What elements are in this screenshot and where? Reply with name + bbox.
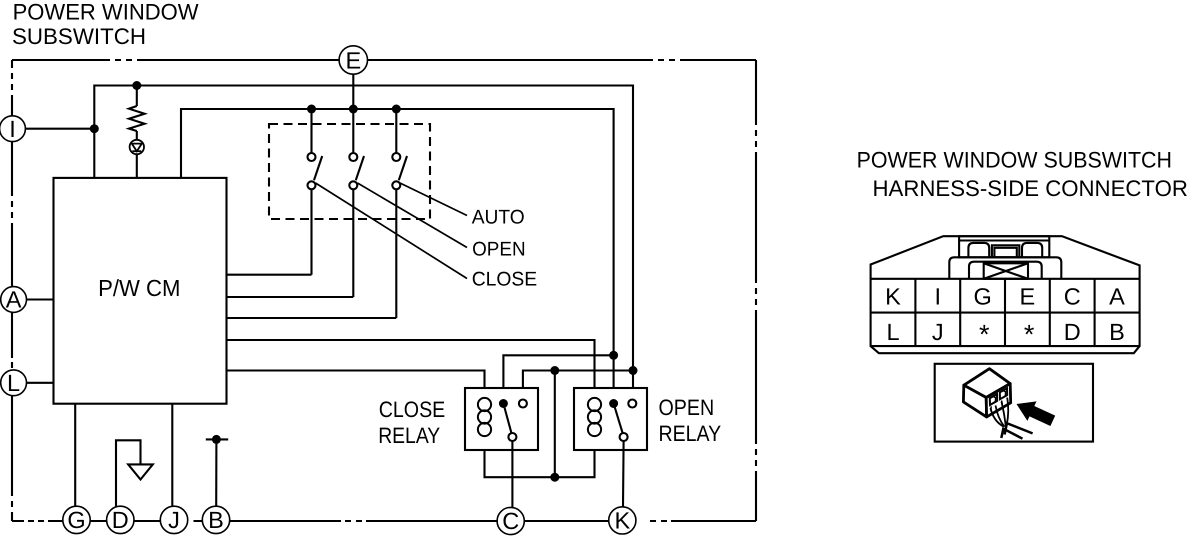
wire S3 to P/W CM (227, 317, 397, 319)
LED indicator lamp (130, 140, 144, 154)
connector top latch tier 1 (959, 236, 1049, 257)
wire line5 to CLOSE relay coil (227, 371, 485, 399)
wire S2 to P/W CM (227, 296, 354, 298)
OPEN relay arm (614, 404, 623, 434)
terminal L (1, 370, 27, 396)
svg-text:L: L (7, 370, 20, 396)
OPEN relay common contact (609, 399, 618, 408)
connector icon fork prongs (1001, 423, 1032, 439)
wire LED to box (136, 154, 138, 178)
wire line4 to OPEN relay coil (227, 340, 595, 398)
node bus dot 2 (349, 105, 358, 114)
wire E to switch bus (352, 74, 354, 109)
heading POWER WINDOW SUBSWITCH HARNESS-SIDE CONNECTOR (857, 147, 1188, 201)
border right (755, 60, 757, 521)
label CLOSE RELAY (378, 397, 445, 448)
terminal J (160, 506, 187, 533)
border top (dash-dot boundary) (12, 59, 756, 61)
svg-text:G: G (973, 284, 991, 310)
wire resistor top (136, 86, 138, 107)
node B stub dot (212, 435, 221, 444)
CLOSE relay box K1 (465, 388, 538, 450)
ground symbol (116, 440, 153, 506)
CLOSE relay arm (503, 404, 511, 434)
wire I to junction (25, 128, 94, 130)
svg-text:A: A (6, 287, 22, 313)
wire S1 to P/W CM (227, 274, 312, 276)
title POWER WINDOW SUBSWITCH (12, 0, 199, 49)
terminal B (202, 506, 229, 533)
wire coil bottom bus (485, 436, 595, 477)
resistor R (129, 106, 145, 131)
svg-text:CLOSE: CLOSE (379, 397, 446, 422)
connector pin grid (871, 279, 1140, 346)
connector outline (871, 236, 1140, 353)
svg-text:K: K (885, 284, 901, 310)
label OPEN RELAY (659, 395, 722, 446)
node bus dot 3 (392, 105, 401, 114)
B stub termination bar (206, 438, 228, 440)
svg-text:I: I (935, 284, 942, 310)
connector icon terminal arrows (991, 389, 1006, 410)
wire relay to C (511, 441, 513, 507)
node coil bottom junction (550, 473, 559, 482)
svg-text:C: C (502, 508, 519, 534)
svg-text:G: G (67, 507, 85, 533)
CLOSE relay coil (478, 398, 491, 436)
svg-text:A: A (1109, 284, 1125, 310)
switch S3 (AUTO) (392, 109, 407, 318)
svg-text:D: D (112, 507, 129, 533)
OPEN relay NO contact (628, 400, 636, 408)
wire CLOSE common feed (503, 355, 613, 403)
wire J to box (171, 404, 173, 507)
svg-text:RELAY: RELAY (378, 423, 440, 448)
OPEN relay coil (588, 398, 601, 436)
terminal K (609, 507, 636, 534)
wire net b: box pin up, right, down to OPEN relay NO contact (94, 86, 633, 400)
border left (11, 60, 13, 521)
wire relay to K (622, 441, 625, 507)
svg-text:POWER WINDOW SUBSWITCH: POWER WINDOW SUBSWITCH (857, 147, 1172, 172)
terminal E (339, 46, 367, 74)
svg-text:B: B (208, 507, 224, 533)
wire NO bus (523, 371, 633, 400)
svg-text:OPEN: OPEN (659, 395, 715, 420)
terminal D (107, 506, 134, 533)
connector detail box (935, 364, 1093, 442)
wire resistor to LED (136, 131, 138, 140)
wire switch bus y109 from box pin to OPEN relay common (181, 109, 614, 404)
node NO bus dot mid (550, 366, 559, 375)
svg-text:D: D (1064, 319, 1081, 345)
OPEN relay box K2 (574, 388, 647, 450)
svg-text:P/W CM: P/W CM (98, 275, 180, 301)
svg-text:CLOSE: CLOSE (472, 269, 538, 291)
connector icon wires (991, 398, 1009, 427)
CLOSE relay common contact (499, 399, 508, 408)
terminal I (0, 116, 25, 142)
leader AUTO (400, 183, 467, 216)
switch assembly dashed box (269, 124, 430, 219)
svg-text:HARNESS-SIDE CONNECTOR: HARNESS-SIDE CONNECTOR (873, 176, 1188, 201)
svg-text:E: E (345, 47, 361, 73)
wire A to box (27, 298, 54, 300)
connector icon terminal holes (990, 388, 1007, 405)
node bus dot 1 (307, 105, 316, 114)
node junction I-wire (90, 124, 99, 133)
terminal A (1, 287, 27, 313)
svg-text:AUTO: AUTO (472, 206, 525, 228)
P/W CM box U1 (54, 178, 227, 404)
wire NO bus to coil-bottom bus (554, 371, 556, 478)
svg-text:SUBSWITCH: SUBSWITCH (12, 24, 146, 49)
svg-text:L: L (886, 319, 899, 345)
switch S1 (CLOSE) (308, 109, 323, 275)
connector top latch tier 2 (949, 257, 1061, 279)
connector icon arrow (1017, 401, 1056, 426)
svg-text:POWER WINDOW: POWER WINDOW (13, 0, 200, 24)
node junction close-common tap (609, 351, 618, 360)
wire G to box (74, 404, 76, 507)
svg-text:*: * (1024, 320, 1035, 350)
CLOSE relay NO contact (519, 400, 527, 408)
svg-text:C: C (1064, 284, 1081, 310)
pin letters row 1: K I G E C A (885, 284, 1125, 310)
svg-text:K: K (614, 508, 630, 534)
svg-text:I: I (9, 116, 16, 142)
leader OPEN (358, 183, 468, 248)
svg-text:RELAY: RELAY (659, 421, 722, 446)
pin letters row 2: L J * * D B (886, 319, 1124, 350)
svg-text:*: * (979, 320, 990, 350)
svg-text:B: B (1109, 319, 1125, 345)
connector icon 3D body (963, 369, 1010, 417)
svg-text:J: J (168, 507, 180, 533)
terminal G (63, 506, 90, 533)
CLOSE relay output contact (508, 433, 516, 441)
OPEN relay output contact (620, 433, 628, 441)
node junction resistor tap (132, 81, 141, 90)
leader CLOSE (316, 183, 468, 279)
svg-text:OPEN: OPEN (472, 238, 525, 260)
border bottom (12, 520, 756, 522)
wire B stub down (215, 439, 217, 506)
svg-text:E: E (1020, 284, 1036, 310)
svg-text:J: J (932, 319, 944, 345)
wire L to box (27, 382, 54, 384)
node NO bus dot right (629, 366, 638, 375)
switch S2 (OPEN) (349, 109, 364, 297)
terminal C (497, 507, 524, 534)
